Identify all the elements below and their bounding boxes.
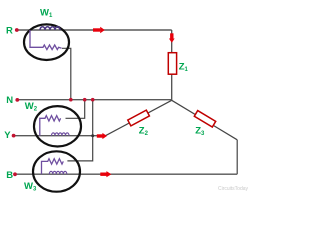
svg-text:N: N: [6, 95, 13, 106]
wattmeter W3 pressure coil resistor: [42, 159, 64, 175]
wattmeter W3 ellipse: [33, 151, 80, 191]
impedance Z3: [194, 111, 215, 127]
wattmeter W2 ellipse: [34, 106, 81, 146]
terminal R dot: [15, 28, 19, 32]
wire Z1 to star node: [171, 74, 173, 100]
junction W3 pressure on N: [91, 98, 95, 102]
terminal B dot: [13, 172, 17, 176]
wire B phase line: [16, 173, 237, 175]
junction Y line crossing: [91, 134, 94, 137]
wire R drop to Z1: [171, 30, 173, 53]
wire Y phase line: [15, 135, 106, 137]
wire Z3 drop to bottom: [236, 140, 238, 174]
svg-text:Y: Y: [4, 130, 11, 141]
wattmeter W1 ellipse: [24, 24, 69, 60]
terminal Y dot: [12, 134, 16, 138]
current arrow into Z1: [169, 33, 175, 42]
wattmeter W2 pressure coil resistor: [40, 116, 61, 136]
wattmeter W3 current coil: [49, 171, 67, 174]
wire N neutral line: [19, 99, 172, 101]
impedance Z1: [168, 53, 176, 74]
junction W2 pressure on N: [83, 98, 87, 102]
junction W1 pressure on N: [69, 98, 73, 102]
current arrow on R line: [93, 27, 105, 34]
wire W2 pressure coil to N: [66, 100, 85, 119]
impedance Z2: [128, 110, 150, 126]
wattmeter W1 current coil: [40, 27, 60, 30]
current arrow on Y line: [97, 133, 107, 139]
svg-text:CircuitsToday: CircuitsToday: [218, 186, 249, 192]
wire W3 pressure coil to N: [67, 100, 92, 161]
wire star node diagonal to Z3: [172, 100, 238, 140]
current arrow on B line: [100, 171, 111, 177]
svg-text:B: B: [6, 170, 13, 181]
wattmeter W2 current coil: [52, 133, 70, 136]
wire Y diagonal to star node: [106, 100, 172, 135]
svg-text:R: R: [6, 26, 13, 37]
wattmeter W1 pressure coil resistor: [30, 30, 62, 50]
terminal N dot: [15, 98, 19, 102]
wire W1 pressure coil to N: [62, 48, 71, 99]
wire R phase line: [18, 29, 172, 31]
